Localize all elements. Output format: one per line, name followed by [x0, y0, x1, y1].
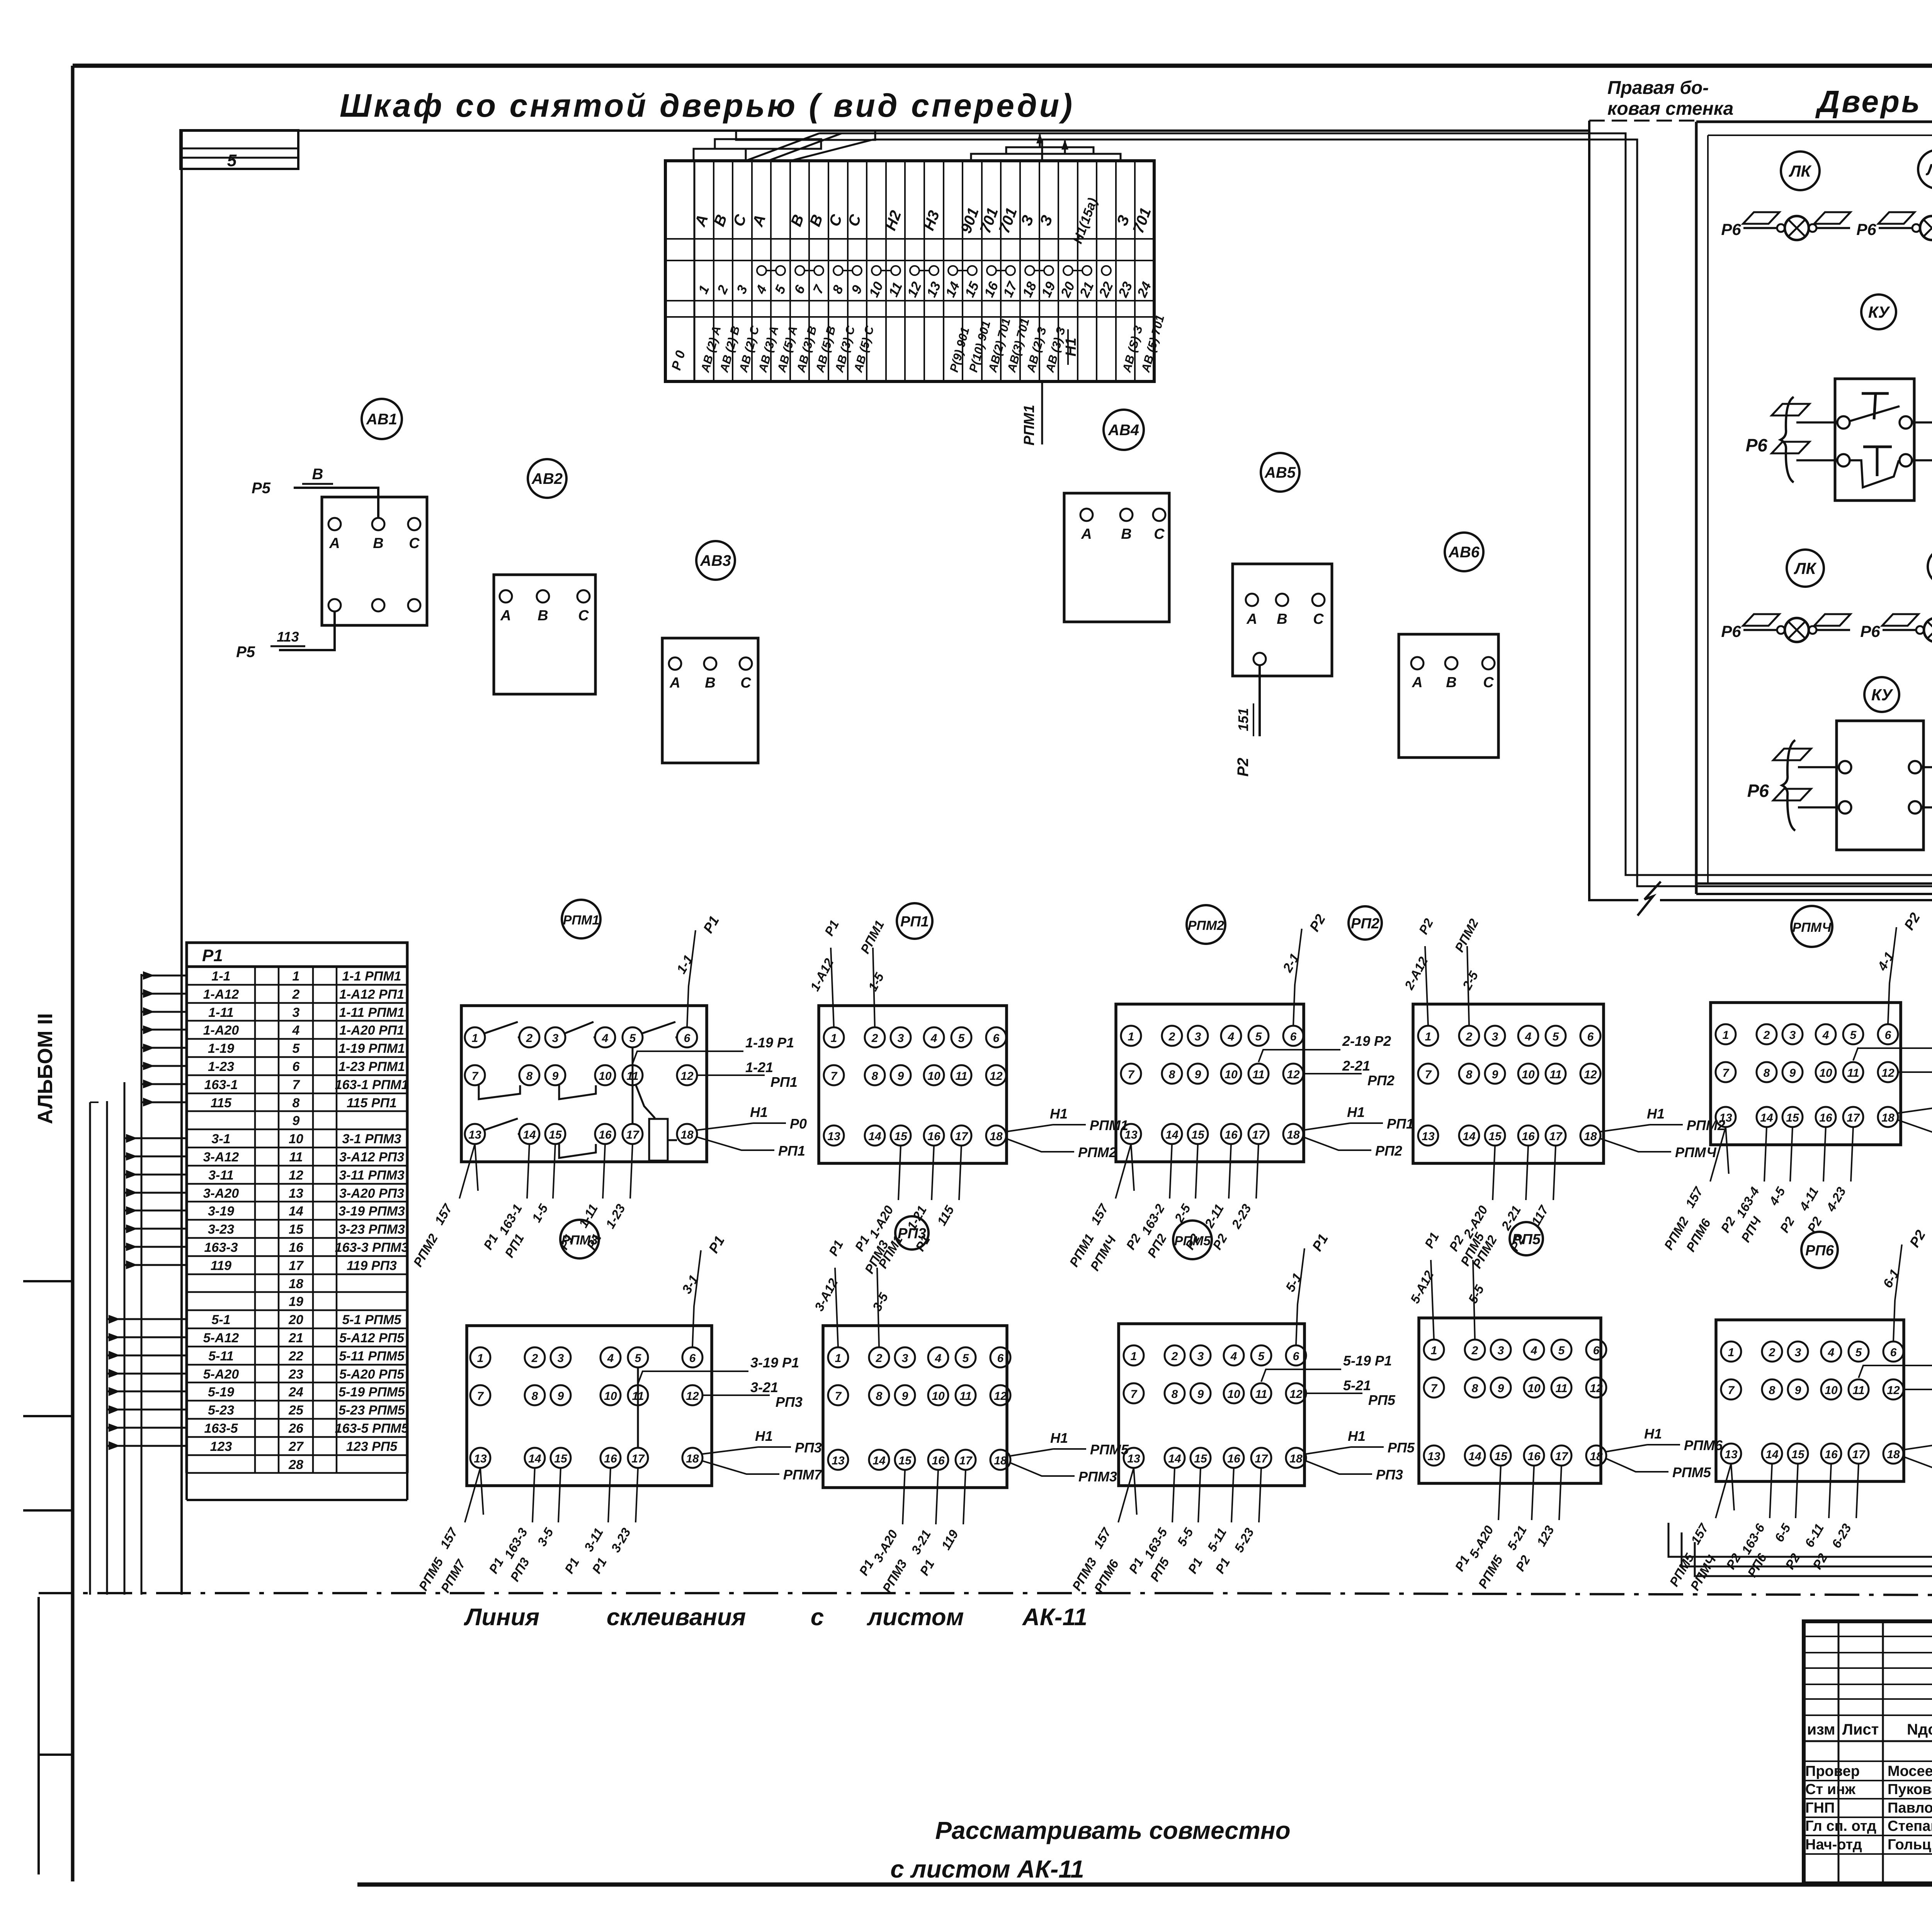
svg-text:1: 1 [1131, 1350, 1137, 1363]
svg-text:1-19 РПМ1: 1-19 РПМ1 [338, 1041, 405, 1056]
svg-text:С: С [1313, 611, 1324, 627]
svg-text:6: 6 [689, 1352, 696, 1365]
svg-text:4-5: 4-5 [1766, 1184, 1788, 1208]
svg-text:1-11 РПМ1: 1-11 РПМ1 [339, 1005, 404, 1020]
svg-text:9: 9 [552, 1070, 559, 1083]
svg-text:4-11: 4-11 [1796, 1185, 1821, 1213]
svg-text:20: 20 [288, 1313, 303, 1327]
svg-text:17: 17 [959, 1454, 973, 1467]
svg-text:9: 9 [898, 1070, 904, 1083]
svg-text:17: 17 [1549, 1130, 1563, 1143]
svg-text:Н1: Н1 [1644, 1426, 1662, 1442]
svg-text:АВ5: АВ5 [1264, 464, 1296, 481]
svg-text:С: С [1154, 526, 1165, 542]
svg-text:3-23: 3-23 [208, 1222, 234, 1237]
svg-text:С: С [1483, 674, 1494, 691]
svg-text:В: В [373, 535, 383, 552]
svg-text:6: 6 [791, 283, 808, 296]
svg-text:701: 701 [1130, 206, 1155, 236]
svg-text:2: 2 [1769, 1346, 1776, 1359]
svg-text:10: 10 [866, 279, 886, 300]
svg-text:3: 3 [293, 1005, 300, 1020]
svg-text:РП1: РП1 [1387, 1116, 1414, 1132]
svg-text:Р1: Р1 [700, 913, 722, 936]
svg-text:15: 15 [549, 1129, 562, 1141]
svg-text:Р6: Р6 [1860, 622, 1880, 640]
svg-text:18: 18 [1590, 1450, 1603, 1463]
svg-text:2-21: 2-21 [1342, 1058, 1370, 1074]
svg-text:1-23 РПМ1: 1-23 РПМ1 [338, 1059, 405, 1074]
svg-text:11: 11 [289, 1150, 303, 1165]
svg-text:3-21: 3-21 [908, 1527, 934, 1557]
svg-text:13: 13 [1427, 1450, 1440, 1463]
svg-text:10: 10 [1227, 1388, 1240, 1401]
svg-text:12: 12 [1584, 1068, 1597, 1081]
svg-text:Н1: Н1 [1050, 1106, 1068, 1122]
svg-text:6: 6 [293, 1059, 300, 1074]
svg-text:17: 17 [1252, 1129, 1265, 1141]
svg-text:5-19 Р1: 5-19 Р1 [1343, 1353, 1392, 1369]
svg-text:Р1: Р1 [822, 918, 842, 938]
svg-text:15: 15 [1791, 1448, 1805, 1461]
svg-text:АК-11: АК-11 [1022, 1604, 1087, 1631]
svg-text:12: 12 [289, 1168, 303, 1183]
svg-text:14: 14 [1463, 1130, 1476, 1143]
svg-text:Р6: Р6 [1746, 435, 1768, 455]
svg-text:25: 25 [288, 1403, 304, 1418]
svg-text:17: 17 [1847, 1112, 1860, 1124]
svg-text:3-11: 3-11 [208, 1168, 234, 1183]
svg-text:2: 2 [1466, 1030, 1473, 1043]
svg-text:16: 16 [1522, 1130, 1535, 1143]
svg-text:3: 3 [1197, 1350, 1204, 1363]
svg-text:РПМ6: РПМ6 [1684, 1437, 1723, 1453]
svg-text:5-19: 5-19 [208, 1385, 234, 1399]
svg-text:13: 13 [1422, 1130, 1435, 1143]
svg-text:14: 14 [1765, 1448, 1779, 1461]
svg-text:В: В [1446, 674, 1456, 691]
svg-text:701: 701 [977, 206, 1002, 236]
svg-text:15: 15 [289, 1222, 304, 1237]
svg-text:16: 16 [927, 1130, 940, 1143]
svg-text:Мосеенко: Мосеенко [1888, 1763, 1932, 1779]
svg-text:8: 8 [1769, 1384, 1776, 1397]
svg-text:6-23: 6-23 [1829, 1521, 1854, 1551]
svg-text:Р1: Р1 [1422, 1230, 1442, 1250]
svg-text:16: 16 [981, 279, 1002, 300]
svg-text:7: 7 [472, 1070, 479, 1083]
svg-text:6: 6 [1593, 1344, 1600, 1357]
svg-text:РПМ1: РПМ1 [858, 918, 887, 956]
svg-text:5-23: 5-23 [208, 1403, 234, 1418]
svg-text:15: 15 [894, 1130, 908, 1143]
svg-text:Р1: Р1 [202, 946, 223, 965]
svg-text:11: 11 [1255, 1388, 1267, 1401]
svg-text:А: А [1246, 611, 1257, 627]
svg-text:11: 11 [1549, 1068, 1561, 1081]
svg-text:1: 1 [472, 1032, 478, 1045]
svg-text:4: 4 [930, 1032, 937, 1045]
svg-text:Р5: Р5 [252, 480, 271, 497]
svg-text:27: 27 [288, 1439, 304, 1454]
svg-text:14: 14 [868, 1130, 881, 1143]
svg-text:5: 5 [1255, 1030, 1262, 1043]
svg-text:1-23: 1-23 [208, 1059, 234, 1074]
svg-text:5-21: 5-21 [1343, 1377, 1371, 1393]
svg-text:РП3: РП3 [776, 1394, 803, 1410]
svg-text:23: 23 [288, 1367, 303, 1382]
svg-text:5-19 РПМ5: 5-19 РПМ5 [338, 1385, 405, 1399]
svg-text:5: 5 [1258, 1350, 1265, 1363]
svg-text:1: 1 [835, 1352, 842, 1365]
svg-text:8: 8 [872, 1070, 878, 1083]
svg-text:5-11: 5-11 [208, 1349, 234, 1364]
svg-text:Н1: Н1 [1647, 1106, 1665, 1122]
svg-text:14: 14 [289, 1204, 303, 1219]
svg-text:2: 2 [876, 1352, 883, 1365]
svg-text:15: 15 [962, 279, 982, 300]
svg-text:115: 115 [211, 1096, 232, 1110]
svg-text:15: 15 [554, 1452, 568, 1465]
svg-text:5: 5 [772, 283, 789, 296]
svg-text:8: 8 [1472, 1382, 1478, 1395]
svg-text:РПМ1: РПМ1 [563, 913, 599, 928]
svg-text:Р1: Р1 [1126, 1555, 1146, 1576]
svg-text:12: 12 [680, 1070, 694, 1083]
svg-text:Н1: Н1 [1063, 338, 1079, 357]
svg-text:19: 19 [289, 1294, 303, 1309]
svg-text:1-21: 1-21 [745, 1059, 773, 1075]
svg-text:5-А12: 5-А12 [203, 1331, 239, 1345]
svg-text:7: 7 [293, 1078, 301, 1092]
svg-text:8: 8 [830, 283, 847, 296]
svg-text:13: 13 [474, 1452, 487, 1465]
svg-text:157: 157 [1682, 1184, 1706, 1210]
svg-text:Дверь шкафа ( вид сзади): Дверь шкафа ( вид сзади) [1815, 84, 1932, 119]
svg-text:9: 9 [1197, 1388, 1204, 1401]
svg-text:РПМ2: РПМ2 [1188, 918, 1224, 933]
svg-text:11: 11 [1252, 1068, 1264, 1081]
svg-text:6-5: 6-5 [1772, 1521, 1793, 1544]
svg-text:3: 3 [734, 283, 751, 296]
svg-text:3-5: 3-5 [870, 1290, 891, 1313]
svg-text:12: 12 [1590, 1382, 1603, 1395]
svg-text:ЛК: ЛК [1794, 559, 1817, 577]
svg-text:10: 10 [1225, 1068, 1238, 1081]
svg-text:15: 15 [898, 1454, 912, 1467]
svg-text:8: 8 [526, 1070, 533, 1083]
svg-text:РПМ2: РПМ2 [1452, 916, 1481, 954]
svg-text:ГНП: ГНП [1805, 1800, 1835, 1816]
svg-text:5: 5 [293, 1041, 300, 1056]
svg-text:12: 12 [994, 1390, 1007, 1403]
svg-text:В: В [312, 466, 323, 483]
svg-text:2: 2 [526, 1032, 533, 1045]
svg-text:7: 7 [477, 1390, 484, 1403]
svg-text:16: 16 [289, 1240, 304, 1255]
svg-text:4: 4 [1228, 1030, 1235, 1043]
svg-text:Рассматривать совместно: Рассматривать совместно [935, 1817, 1290, 1844]
svg-text:Р2: Р2 [1210, 1231, 1230, 1252]
svg-text:Р6: Р6 [1721, 622, 1741, 640]
svg-text:16: 16 [599, 1129, 612, 1141]
svg-text:10: 10 [1825, 1384, 1838, 1397]
svg-text:Р1: Р1 [1213, 1555, 1233, 1576]
svg-text:3-23: 3-23 [608, 1525, 633, 1555]
svg-text:РПМ2: РПМ2 [1687, 1117, 1725, 1133]
svg-text:7: 7 [831, 1070, 838, 1083]
svg-text:5: 5 [635, 1352, 642, 1365]
svg-text:123: 123 [1534, 1523, 1557, 1549]
svg-text:2: 2 [714, 283, 731, 297]
svg-text:РПМЧ: РПМЧ [1675, 1144, 1717, 1160]
svg-text:6: 6 [1293, 1350, 1299, 1363]
svg-text:3-19: 3-19 [208, 1204, 234, 1219]
svg-text:14: 14 [528, 1452, 541, 1465]
svg-text:1-А12 РП1: 1-А12 РП1 [339, 987, 404, 1002]
svg-text:18: 18 [1289, 1452, 1303, 1465]
svg-text:3: 3 [1492, 1030, 1498, 1043]
svg-text:157: 157 [1090, 1525, 1114, 1551]
svg-text:2-21: 2-21 [1498, 1203, 1524, 1233]
svg-text:2: 2 [871, 1032, 878, 1045]
svg-text:2: 2 [292, 987, 300, 1002]
svg-text:5-1: 5-1 [211, 1313, 230, 1327]
svg-text:4: 4 [1828, 1346, 1835, 1359]
svg-text:Р2: Р2 [1782, 1551, 1803, 1571]
svg-text:3: 3 [1195, 1030, 1201, 1043]
svg-text:7: 7 [835, 1390, 842, 1403]
svg-text:6: 6 [1885, 1029, 1891, 1042]
svg-text:16: 16 [604, 1452, 617, 1465]
svg-text:11: 11 [1847, 1067, 1859, 1079]
svg-text:2: 2 [1168, 1030, 1175, 1043]
svg-text:5: 5 [1558, 1344, 1565, 1357]
svg-text:9: 9 [293, 1113, 300, 1128]
svg-text:Р1: Р1 [1309, 1231, 1331, 1254]
svg-text:9: 9 [902, 1390, 908, 1403]
svg-text:Р0: Р0 [790, 1116, 807, 1132]
svg-text:РП5: РП5 [1388, 1440, 1415, 1456]
svg-text:163-2: 163-2 [1139, 1201, 1168, 1237]
svg-text:7: 7 [810, 283, 827, 296]
svg-text:8: 8 [293, 1096, 300, 1110]
svg-text:В: В [705, 675, 715, 691]
svg-text:4: 4 [1822, 1029, 1829, 1042]
svg-text:14: 14 [1168, 1452, 1181, 1465]
svg-text:А: А [1081, 526, 1092, 542]
svg-text:РП1: РП1 [778, 1143, 805, 1159]
svg-text:с листом АК-11: с листом АК-11 [890, 1855, 1084, 1883]
svg-text:7: 7 [1425, 1068, 1432, 1081]
svg-text:5: 5 [958, 1032, 965, 1045]
svg-text:6: 6 [993, 1032, 1000, 1045]
svg-text:18: 18 [1287, 1129, 1300, 1141]
svg-text:6: 6 [1587, 1030, 1594, 1043]
svg-text:5-5: 5-5 [1174, 1525, 1196, 1548]
svg-text:В: В [537, 608, 548, 624]
svg-text:24: 24 [288, 1385, 303, 1399]
svg-text:РПМ5: РПМ5 [1672, 1464, 1711, 1480]
svg-text:4: 4 [1531, 1344, 1537, 1357]
svg-text:8: 8 [1169, 1068, 1175, 1081]
svg-text:Р1: Р1 [856, 1557, 876, 1578]
svg-text:Провер: Провер [1805, 1763, 1860, 1779]
svg-text:5: 5 [963, 1352, 969, 1365]
svg-text:14: 14 [523, 1129, 536, 1141]
svg-text:4: 4 [602, 1032, 609, 1045]
svg-text:123: 123 [210, 1439, 232, 1454]
svg-text:Р2: Р2 [1777, 1214, 1798, 1235]
svg-text:А: А [329, 535, 340, 552]
svg-text:6-11: 6-11 [1802, 1521, 1827, 1550]
svg-text:5-23 РПМ5: 5-23 РПМ5 [338, 1403, 405, 1418]
svg-text:1-1 РПМ1: 1-1 РПМ1 [342, 969, 401, 984]
svg-text:3-19 Р1: 3-19 Р1 [750, 1355, 799, 1371]
svg-text:9: 9 [558, 1390, 564, 1403]
svg-text:16: 16 [1225, 1129, 1238, 1141]
svg-text:Р2: Р2 [1123, 1231, 1144, 1252]
svg-text:16: 16 [1825, 1448, 1838, 1461]
svg-text:КУ: КУ [1868, 303, 1891, 321]
svg-text:РП3: РП3 [795, 1440, 822, 1456]
svg-text:2: 2 [1471, 1344, 1478, 1357]
svg-text:157: 157 [432, 1201, 455, 1227]
svg-text:Р2: Р2 [1235, 758, 1252, 777]
svg-text:20: 20 [1058, 279, 1078, 300]
svg-text:12: 12 [905, 279, 925, 300]
svg-text:21: 21 [288, 1331, 303, 1345]
svg-text:13: 13 [1725, 1448, 1738, 1461]
svg-text:1: 1 [1128, 1030, 1134, 1043]
svg-text:163-4: 163-4 [1733, 1185, 1762, 1220]
svg-text:11: 11 [1852, 1384, 1864, 1397]
svg-text:22: 22 [1096, 279, 1116, 300]
svg-text:1-19 Р1: 1-19 Р1 [745, 1035, 794, 1050]
svg-text:4: 4 [292, 1023, 300, 1038]
svg-text:3-5: 3-5 [534, 1525, 556, 1548]
svg-text:1: 1 [477, 1352, 484, 1365]
svg-text:Р6: Р6 [1721, 220, 1741, 238]
svg-text:9: 9 [1492, 1068, 1498, 1081]
svg-text:26: 26 [288, 1421, 304, 1436]
svg-text:22: 22 [288, 1349, 303, 1364]
svg-text:18: 18 [289, 1277, 303, 1291]
svg-text:1-1: 1-1 [211, 969, 230, 984]
svg-text:АВ6: АВ6 [1448, 544, 1480, 561]
svg-text:5-А20 РП5: 5-А20 РП5 [339, 1367, 405, 1382]
svg-text:901: 901 [957, 206, 982, 236]
svg-text:13: 13 [827, 1130, 840, 1143]
svg-text:10: 10 [289, 1132, 303, 1146]
svg-text:Линия: Линия [464, 1604, 539, 1631]
svg-text:Лист: Лист [1842, 1721, 1879, 1738]
svg-text:Р1: Р1 [481, 1231, 501, 1252]
svg-text:14: 14 [1760, 1112, 1773, 1124]
svg-text:1-23: 1-23 [603, 1202, 628, 1231]
svg-text:9: 9 [1195, 1068, 1201, 1081]
svg-text:2-23: 2-23 [1228, 1202, 1254, 1231]
svg-text:Павлова: Павлова [1888, 1800, 1932, 1816]
svg-text:РП2: РП2 [1367, 1073, 1395, 1088]
svg-text:13: 13 [468, 1129, 481, 1141]
svg-text:Р2: Р2 [1416, 916, 1436, 937]
svg-text:3: 3 [1795, 1346, 1801, 1359]
svg-text:15: 15 [1191, 1129, 1205, 1141]
svg-text:РПМ1: РПМ1 [1090, 1117, 1128, 1133]
svg-text:163-1: 163-1 [204, 1078, 238, 1092]
svg-text:1-19: 1-19 [208, 1041, 234, 1056]
svg-text:157: 157 [1688, 1521, 1711, 1547]
svg-text:163-5: 163-5 [204, 1421, 238, 1436]
svg-text:Р1: Р1 [852, 1233, 872, 1253]
svg-text:АВ1: АВ1 [366, 411, 397, 428]
svg-text:12: 12 [686, 1390, 699, 1403]
svg-text:17: 17 [631, 1452, 645, 1465]
svg-text:3: 3 [1498, 1344, 1504, 1357]
svg-text:В: В [1277, 611, 1287, 627]
svg-text:АВ (5) 701: АВ (5) 701 [1139, 313, 1167, 374]
svg-text:1: 1 [831, 1032, 837, 1045]
svg-text:1-11: 1-11 [576, 1202, 600, 1230]
svg-text:10: 10 [599, 1070, 612, 1083]
svg-text:6: 6 [1890, 1346, 1897, 1359]
svg-text:5-21: 5-21 [1504, 1523, 1529, 1553]
svg-text:С: С [409, 535, 420, 552]
svg-text:14: 14 [943, 279, 963, 300]
svg-text:3: 3 [552, 1032, 559, 1045]
svg-text:10: 10 [604, 1390, 617, 1403]
svg-text:13: 13 [289, 1186, 303, 1201]
svg-text:4: 4 [607, 1352, 614, 1365]
svg-text:12: 12 [1881, 1067, 1895, 1079]
svg-text:3-19 РПМ3: 3-19 РПМ3 [338, 1204, 405, 1219]
svg-text:РП2: РП2 [1375, 1143, 1402, 1159]
svg-text:17: 17 [1255, 1452, 1268, 1465]
svg-text:163-6: 163-6 [1739, 1521, 1768, 1556]
svg-text:Р1: Р1 [486, 1555, 506, 1576]
svg-text:Р2: Р2 [1513, 1553, 1533, 1573]
svg-text:17: 17 [955, 1130, 968, 1143]
svg-text:163-3 РПМ3: 163-3 РПМ3 [335, 1240, 409, 1255]
svg-text:4: 4 [1525, 1030, 1532, 1043]
svg-text:Гл сп. отд: Гл сп. отд [1805, 1818, 1876, 1834]
svg-text:21: 21 [1077, 279, 1097, 300]
svg-text:А: А [1412, 674, 1422, 691]
svg-text:АВ2: АВ2 [531, 470, 563, 487]
svg-text:Пукова: Пукова [1888, 1781, 1932, 1798]
svg-text:701: 701 [996, 206, 1020, 236]
svg-text:1: 1 [293, 969, 300, 984]
svg-text:15: 15 [1194, 1452, 1207, 1465]
svg-text:123 РП5: 123 РП5 [346, 1439, 398, 1454]
svg-text:Р1: Р1 [1452, 1553, 1472, 1573]
svg-text:5-А20: 5-А20 [203, 1367, 239, 1382]
svg-text:163-3: 163-3 [502, 1525, 530, 1561]
svg-text:РП5: РП5 [1368, 1392, 1396, 1408]
svg-text:Н1: Н1 [1348, 1428, 1366, 1444]
svg-text:Р5: Р5 [236, 644, 255, 661]
svg-text:РПМ3: РПМ3 [1078, 1469, 1117, 1485]
svg-text:1: 1 [1431, 1344, 1437, 1357]
svg-text:10: 10 [1522, 1068, 1535, 1081]
svg-text:РПМ3: РПМ3 [879, 1557, 910, 1595]
svg-text:РПЧ: РПЧ [1738, 1214, 1764, 1245]
svg-text:10: 10 [927, 1070, 940, 1083]
svg-text:Р2: Р2 [1718, 1214, 1738, 1235]
svg-text:17: 17 [626, 1129, 639, 1141]
svg-text:РП6: РП6 [1805, 1243, 1834, 1259]
